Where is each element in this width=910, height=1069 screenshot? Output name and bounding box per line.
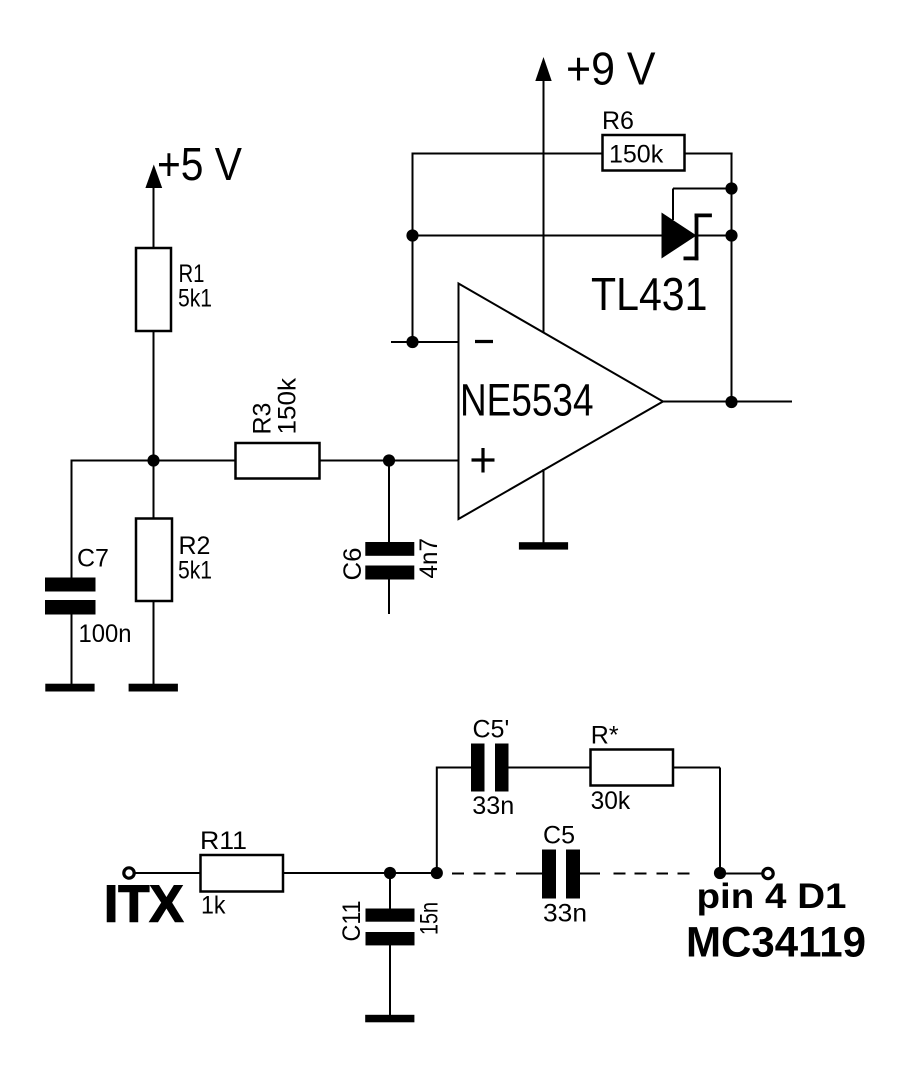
wire TL431 cathode to rail — [697, 235, 732, 237]
svg-text:15n: 15n — [416, 902, 444, 935]
resistor R6 — [603, 135, 685, 171]
wire branch riser — [436, 767, 438, 874]
wire node to R2 — [153, 461, 155, 520]
svg-text:R6: R6 — [602, 107, 634, 135]
wire node C to C11 — [389, 873, 391, 909]
svg-text:5k1: 5k1 — [178, 556, 212, 584]
svg-text:+9 V: +9 V — [566, 43, 656, 95]
capacitor C11 — [366, 909, 415, 946]
wire dashed right segment — [579, 873, 690, 875]
wire TL431 ref horizontal — [673, 188, 732, 190]
node TL431 cathode junction — [725, 229, 737, 241]
wire minus input — [391, 341, 459, 343]
capacitor C7 — [45, 578, 96, 615]
svg-text:1k: 1k — [201, 892, 226, 920]
ground op-amp — [519, 542, 568, 549]
wire C7 branch down — [71, 460, 73, 579]
svg-text:33n: 33n — [472, 792, 514, 820]
wire R1 bottom to node — [153, 331, 155, 461]
node output junction — [725, 396, 737, 408]
ground C11 — [365, 1015, 414, 1023]
wire R11 to node C — [283, 872, 437, 874]
op-amp U1 NE5534 — [459, 284, 664, 520]
wire R6 to cathode rail — [685, 153, 733, 155]
svg-text:4n7: 4n7 — [415, 538, 443, 579]
wire TL431 ref drop — [672, 189, 674, 221]
svg-text:TL431: TL431 — [591, 268, 708, 320]
svg-text:+5 V: +5 V — [157, 138, 242, 190]
op-amp plus sign — [472, 448, 495, 473]
ground C7 — [45, 684, 94, 692]
wire feedback vertical — [412, 153, 414, 343]
ground R2 — [129, 684, 178, 692]
svg-text:C5: C5 — [543, 822, 575, 850]
wire dashed left segment — [452, 873, 543, 875]
svg-text:R3: R3 — [249, 403, 277, 435]
terminal ITX input — [124, 868, 134, 878]
svg-text:C11: C11 — [338, 901, 366, 942]
node anode junction on feedback rail — [406, 229, 418, 241]
svg-text:NE5534: NE5534 — [460, 375, 594, 426]
node TL431 ref junction — [725, 182, 737, 194]
node A junction R1/R2/C7/R3 — [147, 454, 159, 466]
wire op-amp ground stem — [543, 469, 545, 543]
svg-text:MC34119: MC34119 — [686, 920, 866, 967]
+9V supply arrow — [535, 57, 551, 333]
wire feedback top horizontal to R6 — [413, 153, 603, 155]
wire right branch drop — [719, 768, 721, 874]
wire R* to right corner — [673, 767, 720, 769]
svg-text:C5': C5' — [473, 716, 510, 744]
resistor R1 — [136, 248, 171, 331]
wire C7 to ground — [71, 614, 73, 685]
wire C5' to R* — [509, 767, 591, 769]
wire C11 to ground — [389, 945, 391, 1016]
capacitor C5' — [471, 744, 509, 792]
svg-text:150k: 150k — [609, 141, 664, 169]
svg-text:R*: R* — [591, 722, 619, 750]
resistor R2 — [136, 519, 172, 602]
node D junction branch — [431, 867, 443, 879]
svg-text:ITX: ITX — [104, 876, 184, 934]
wire cathode rail vertical — [731, 154, 733, 403]
node C junction C11 — [384, 867, 396, 879]
wire TL431 anode — [413, 235, 663, 237]
svg-text:30k: 30k — [591, 787, 631, 815]
wire ITX to R11 — [135, 872, 201, 874]
svg-text:150k: 150k — [274, 377, 302, 434]
op-amp minus sign — [475, 340, 493, 343]
resistor R* — [591, 750, 674, 786]
node B junction R3/C6/op-amp plus — [383, 454, 395, 466]
+5V supply arrow — [145, 165, 162, 250]
wire C6 open end — [388, 578, 390, 614]
wire horizontal left node rail — [72, 460, 459, 462]
wire to output terminal — [720, 873, 762, 875]
capacitor C6 — [365, 542, 414, 580]
TL431 cathode bar — [684, 214, 712, 261]
wire op-amp output — [663, 401, 792, 403]
wire R2 to ground — [153, 601, 155, 685]
resistor R11 — [201, 855, 284, 892]
resistor R3 — [236, 443, 320, 479]
diode TL431 triangle — [662, 213, 697, 259]
capacitor C5 — [542, 850, 580, 899]
svg-text:pin 4 D1: pin 4 D1 — [697, 877, 847, 916]
node E output junction — [714, 867, 726, 879]
wire branch to C5' — [437, 767, 471, 769]
svg-text:C6: C6 — [339, 548, 367, 581]
svg-text:C7: C7 — [77, 545, 109, 573]
svg-text:100n: 100n — [79, 620, 132, 648]
svg-text:R11: R11 — [200, 827, 247, 855]
svg-text:5k1: 5k1 — [178, 285, 212, 313]
svg-text:33n: 33n — [543, 900, 587, 928]
terminal pin4 output — [763, 868, 773, 878]
wire node B to C6 — [388, 461, 390, 543]
node minus input junction — [406, 336, 418, 348]
